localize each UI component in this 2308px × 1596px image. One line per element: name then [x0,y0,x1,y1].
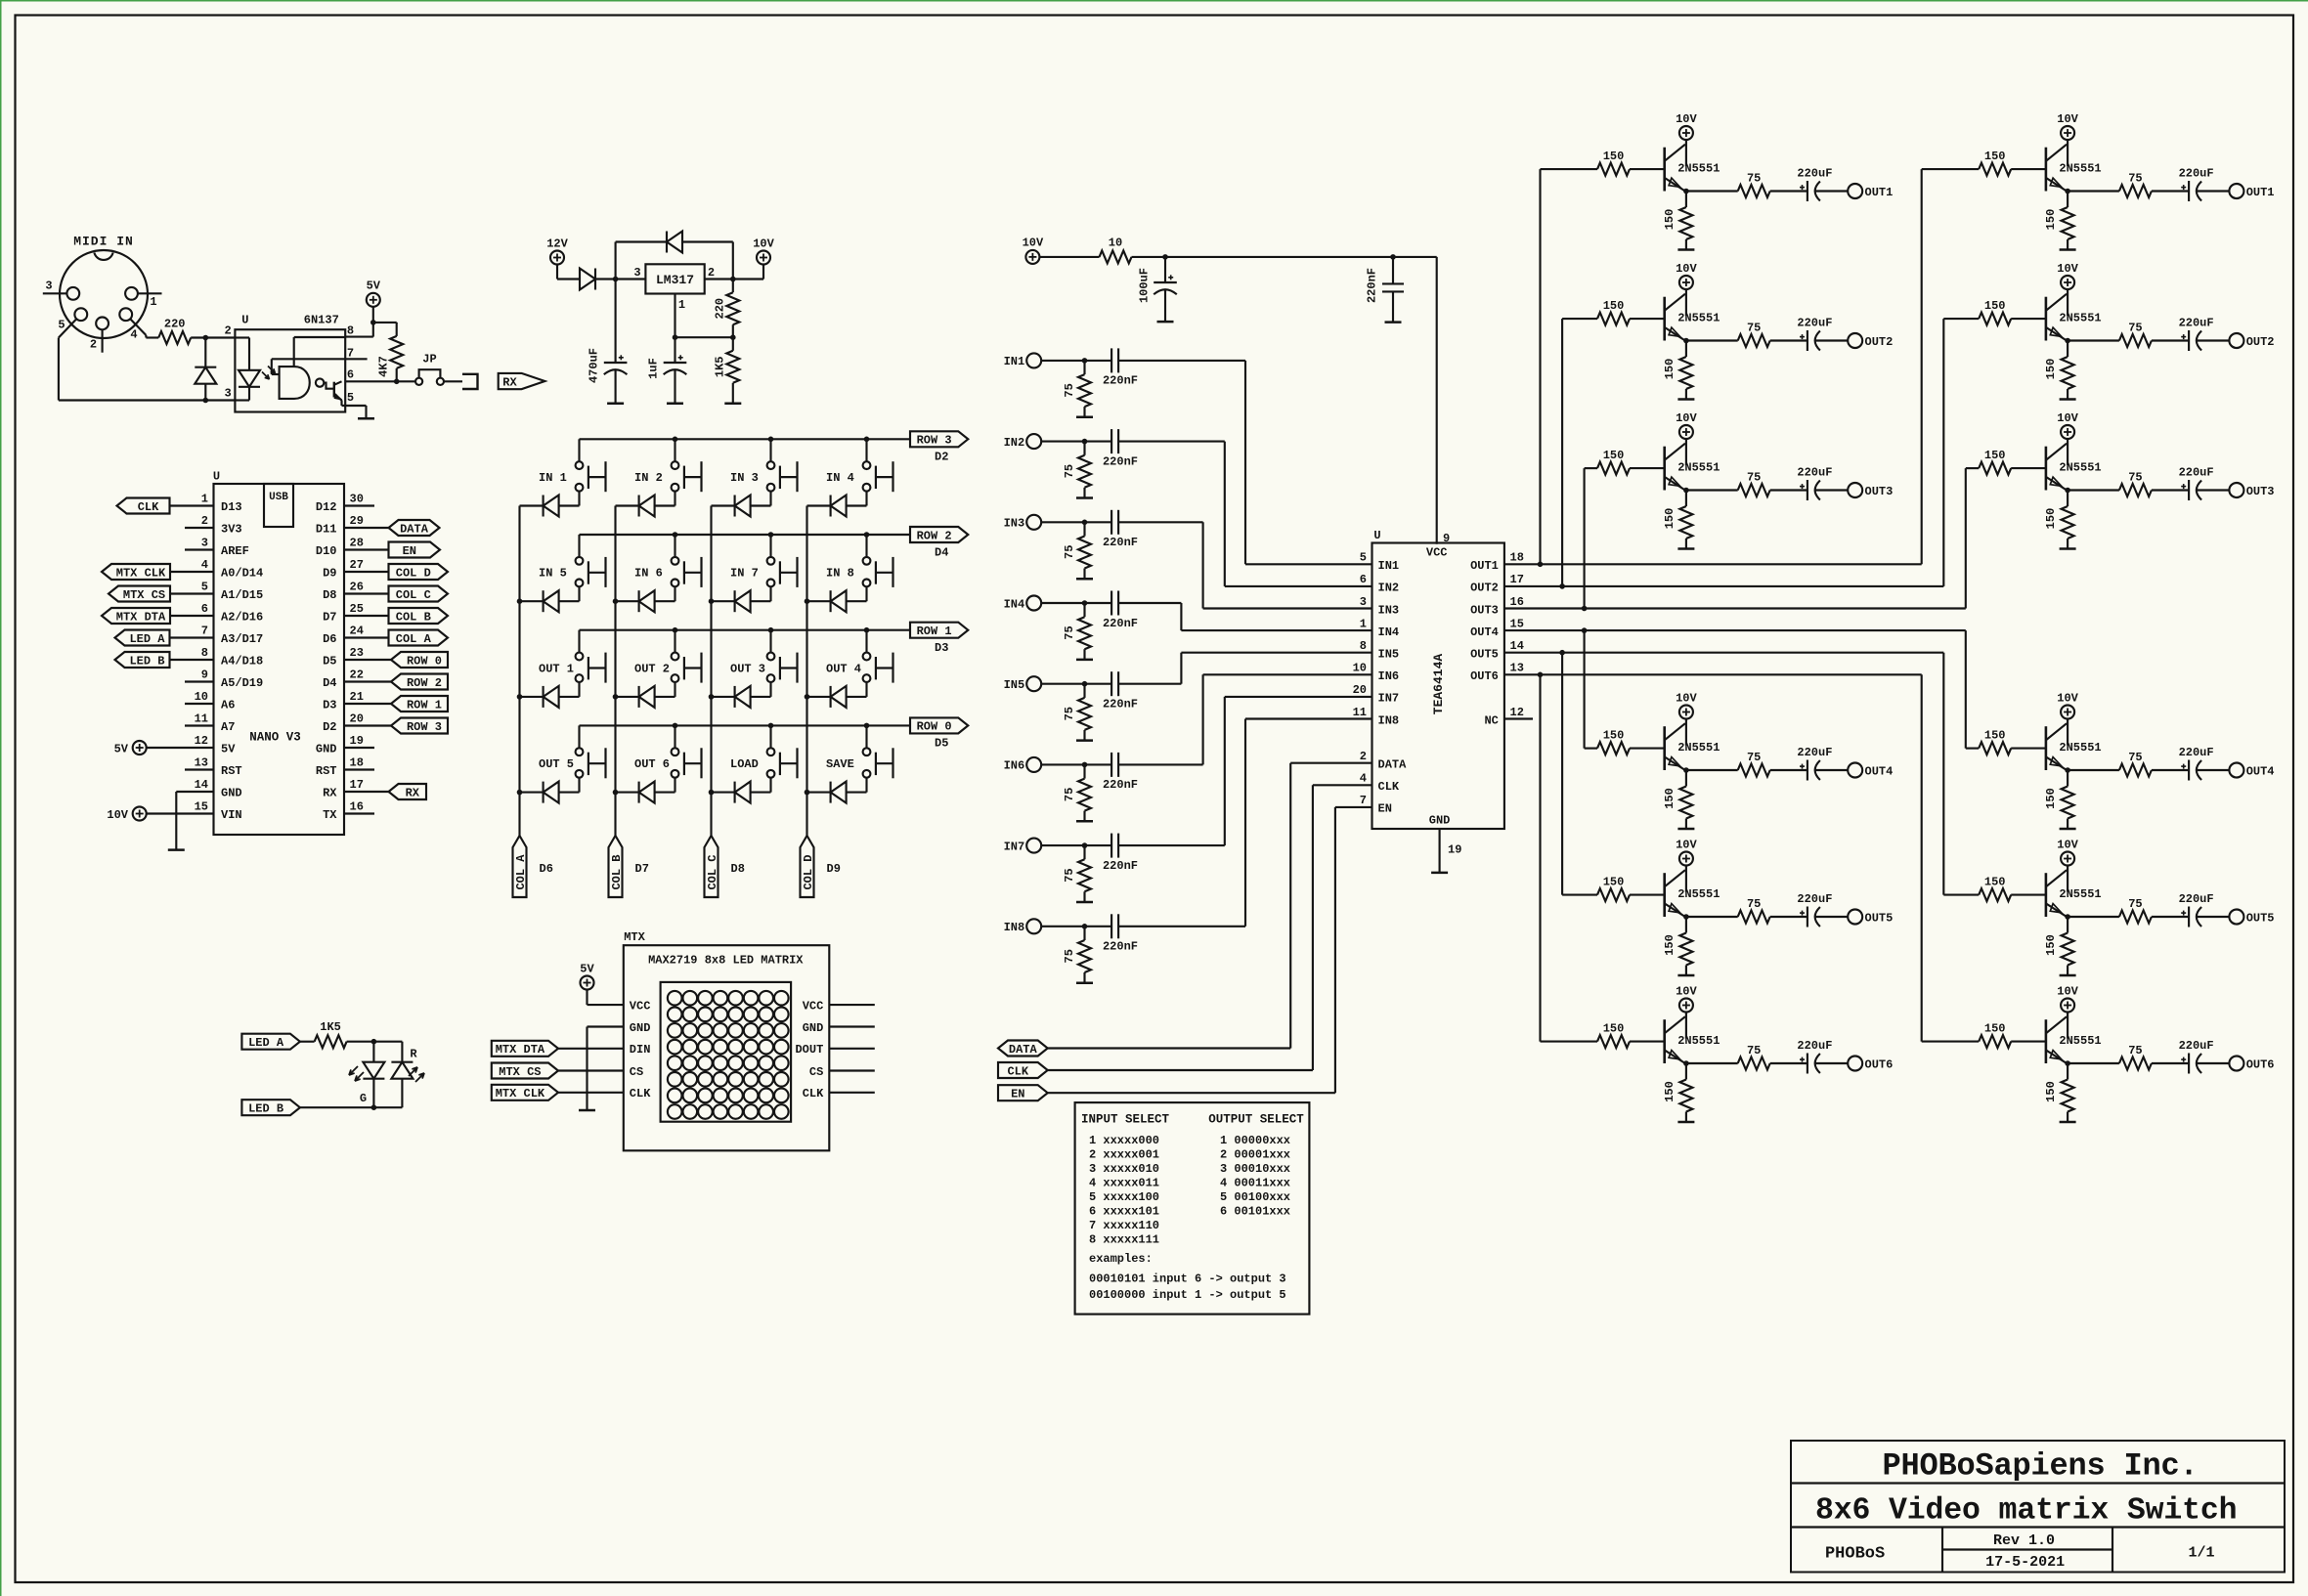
svg-text:DOUT: DOUT [795,1043,823,1057]
capacitor C4 220nF [1392,257,1394,284]
junction IN5 [1082,681,1088,687]
svg-text:75: 75 [1747,470,1761,484]
wire column COL B [614,506,616,837]
power flag 10V (QR1) [2061,126,2074,140]
terminal OUT1 (QL1) [1848,184,1862,198]
wire row ROW 0 [580,724,911,726]
junction IN7 [1082,842,1088,848]
opto output transistor [324,383,334,389]
page border green tint left edge [0,0,2,1596]
svg-text:75: 75 [1063,383,1076,397]
svg-text:IN 6: IN 6 [634,567,663,581]
terminal OUT3 (QR3) [2229,483,2243,497]
svg-text:D8: D8 [323,588,336,602]
svg-text:150: 150 [1663,1081,1677,1102]
junction row2 col2 [768,627,774,633]
svg-text:220uF: 220uF [2179,166,2214,180]
svg-text:220nF: 220nF [1103,859,1138,873]
svg-text:2: 2 [201,514,208,528]
resistor R QR4 series 75 [2119,764,2152,777]
svg-text:SAVE: SAVE [826,757,854,771]
wire OUT4 pin horizontal [1504,629,1966,631]
svg-text:5 00100xxx: 5 00100xxx [1220,1190,1290,1204]
svg-text:U: U [1373,529,1380,542]
capacitor C_in8 220nF [1110,914,1112,938]
svg-text:ROW 3: ROW 3 [917,434,952,448]
wire OUT4 right riser down [1965,630,1967,749]
junction row2 col3 [864,627,870,633]
resistor R5 1K5 [315,1035,347,1048]
svg-text:10V: 10V [753,237,774,250]
svg-text:TEA6414A: TEA6414A [1431,654,1446,715]
button SW IN 5 stub [578,535,580,557]
capacitor C QR5 220uF [2188,907,2190,927]
transistor Q QR3 2N5551 [2045,447,2048,491]
capacitor C QL4 220uF [1807,760,1808,781]
wire QR1 collector [2067,140,2068,166]
svg-text:D11: D11 [316,522,337,536]
junction IN3 [1082,520,1088,526]
junction QR5 emitter [2065,914,2070,920]
svg-text:2: 2 [1360,750,1367,763]
mcu pin14 GND wire [176,791,213,793]
wire QR1 R75 to cap [2152,190,2189,192]
svg-text:A1/D15: A1/D15 [221,588,263,602]
mcu U3 NANO V3 box [214,484,345,835]
MIDI pin 2 [96,318,109,330]
terminal OUT3 (QL3) [1848,483,1862,497]
svg-text:2: 2 [90,337,97,351]
wire QL3 emitter to R75 [1686,489,1738,491]
svg-text:TX: TX [323,808,337,822]
svg-text:PHOBoS: PHOBoS [1825,1544,1885,1563]
svg-text:2N5551: 2N5551 [2059,741,2101,755]
svg-text:10V: 10V [2057,112,2078,126]
wire OUT3 pin horizontal [1504,607,1966,609]
junction QL1 emitter [1683,189,1689,194]
svg-text:5V: 5V [580,962,594,975]
diode cell IN 5 [520,600,544,602]
junction row1 col1 [673,532,678,538]
transistor Q QL3 2N5551 [1663,447,1666,491]
svg-text:OUT 4: OUT 4 [826,662,861,675]
svg-text:220nF: 220nF [1103,454,1138,468]
junction OUT4 left riser [1582,627,1588,633]
junction col2 row2 [709,694,715,700]
svg-text:A4/D18: A4/D18 [221,654,263,668]
svg-text:OUT5: OUT5 [1470,648,1499,662]
flag COL A (pin24) [344,636,389,638]
svg-text:6 xxxxx101: 6 xxxxx101 [1089,1204,1159,1218]
wire QR2 collector [2067,289,2068,316]
svg-text:D12: D12 [316,500,337,514]
svg-text:10V: 10V [2057,984,2078,998]
svg-text:1 00000xxx: 1 00000xxx [1220,1134,1290,1147]
wire QL4 emitter to R75 [1686,769,1738,771]
resistor R QR3 emitter 150 [2067,491,2068,507]
svg-text:DATA: DATA [1378,758,1408,772]
svg-text:LOAD: LOAD [730,757,759,771]
svg-text:OUT1: OUT1 [1470,559,1499,573]
svg-text:220nF: 220nF [1103,698,1138,712]
diode cell IN 2 [616,504,639,506]
wire QR3 base [2011,467,2046,469]
svg-text:150: 150 [1663,934,1677,956]
svg-text:17-5-2021: 17-5-2021 [1985,1554,2065,1571]
svg-text:220uF: 220uF [1797,892,1832,906]
terminal OUT2 (QR2) [2229,333,2243,348]
svg-text:11: 11 [1353,706,1367,719]
svg-text:4 xxxxx011: 4 xxxxx011 [1089,1177,1159,1190]
wire OUT6 pin horizontal [1504,673,1922,675]
svg-text:2N5551: 2N5551 [1677,161,1720,175]
MIDI pin 5 [74,308,87,321]
power flag 12V [550,251,564,265]
wire LED A to R5 [300,1041,315,1043]
wire QR4 collector [2067,719,2068,746]
terminal OUT5 (QL5) [1848,910,1862,925]
resistor R_in7 75 [1083,845,1085,859]
svg-text:75: 75 [1063,625,1076,639]
svg-text:75: 75 [1747,321,1761,334]
svg-text:MTX CS: MTX CS [499,1065,541,1079]
svg-text:150: 150 [1603,449,1625,462]
wire OUT6 right riser down [1921,674,1923,1041]
svg-text:AREF: AREF [221,544,249,558]
svg-text:VCC: VCC [630,999,651,1013]
svg-text:4: 4 [130,327,137,341]
button SW IN 1 [576,461,584,469]
button SW OUT 3 [767,653,775,661]
mcu pin10 stub [185,703,214,705]
wire node C up to bypass rail [615,242,617,280]
ground R4 [724,403,741,406]
resistor R QR3 base 150 [1979,462,2011,475]
svg-text:6N137: 6N137 [304,314,339,327]
svg-text:D3: D3 [935,641,948,655]
junction QL5 emitter [1683,914,1689,920]
svg-text:USB: USB [269,492,288,503]
capacitor C_in5 220nF [1110,671,1112,696]
wire column COL A [518,506,520,837]
junction OUT5 left riser [1559,650,1565,656]
bypass diode rail right [682,240,733,242]
svg-text:MTX CLK: MTX CLK [496,1087,545,1100]
diode cell LOAD [712,792,735,794]
resistor R QR5 base 150 [1979,888,2011,901]
svg-text:150: 150 [1663,788,1677,809]
flag ROW 0 (matrix) [910,717,968,733]
svg-text:OUT6: OUT6 [1470,669,1499,683]
svg-text:220uF: 220uF [1797,316,1832,329]
button SW OUT 2 [672,653,679,661]
svg-text:20: 20 [350,712,364,725]
node B junction [203,398,209,404]
svg-text:10V: 10V [2057,411,2078,425]
power flag 10V (QL3) [1679,425,1693,439]
power flag 10V (QL4) [1679,706,1693,719]
MIDI pin 3 [66,287,79,300]
capacitor C_in1 220nF [1110,348,1112,372]
button SW IN 2 stub [674,439,675,461]
svg-text:220uF: 220uF [1797,746,1832,759]
svg-text:220: 220 [714,298,727,320]
svg-text:00010101 input 6 -> output 3: 00010101 input 6 -> output 3 [1089,1272,1286,1286]
flag LED A (pin7) [115,630,170,646]
wire QR3 cap to OUT [2197,489,2229,491]
resistor R2 4K7 [396,323,398,336]
mcu pin9 stub [185,680,214,682]
svg-text:7 xxxxx110: 7 xxxxx110 [1089,1219,1159,1232]
svg-text:OUT 5: OUT 5 [539,757,574,771]
svg-text:MTX CLK: MTX CLK [116,566,166,580]
wire QR1 base [2011,168,2046,170]
power flag 10V (reg out) [757,251,770,265]
svg-text:G: G [360,1092,367,1105]
svg-text:D3: D3 [323,698,336,712]
button SW SAVE stub [865,725,867,748]
svg-text:JP: JP [422,352,436,366]
svg-text:7: 7 [1360,794,1367,807]
diode cell SAVE [807,792,831,794]
svg-text:CLK: CLK [803,1087,824,1100]
flag ROW 1 (matrix) [910,623,968,638]
svg-text:220uF: 220uF [1797,465,1832,479]
svg-text:OUT5: OUT5 [1865,911,1894,925]
svg-text:LED B: LED B [129,654,164,668]
svg-text:220nF: 220nF [1103,778,1138,792]
svg-text:COL B: COL B [396,610,431,624]
svg-text:10V: 10V [1676,112,1697,126]
diode cell IN 4 [807,504,831,506]
wire QL4 collector [1685,719,1687,746]
diode cell IN 7 [712,600,735,602]
svg-text:150: 150 [1984,150,2006,163]
svg-text:150: 150 [2044,934,2058,956]
svg-text:examples:: examples: [1089,1252,1153,1266]
svg-text:LED A: LED A [248,1036,284,1050]
svg-text:75: 75 [1747,171,1761,185]
svg-text:Rev 1.0: Rev 1.0 [1993,1532,2055,1549]
svg-text:OUT 1: OUT 1 [539,662,574,675]
junction col0 row2 [517,694,523,700]
button SW IN 7 stub [769,535,771,557]
svg-text:GND: GND [221,786,242,799]
resistor R_in3 75 [1083,522,1085,536]
svg-text:4K7: 4K7 [377,356,391,377]
resistor R1 220 [158,331,191,344]
svg-text:10V: 10V [1676,262,1697,276]
svg-text:LM317: LM317 [656,273,694,287]
wire OUT1 right riser up [1921,169,1923,564]
svg-text:D7: D7 [635,862,649,876]
regulator U2 LM317 box [645,264,704,293]
wire 10V stub [762,265,764,280]
wire rail to TEA VCC [1436,257,1438,544]
power flag 5V (opto) [367,293,380,307]
svg-text:OUT3: OUT3 [2246,485,2275,498]
capacitor C QR6 220uF [2188,1054,2190,1074]
svg-text:150: 150 [1984,299,2006,313]
page border green tint top edge [0,0,2308,2]
svg-text:IN8: IN8 [1378,713,1400,727]
module right pin VCC stub [829,1004,875,1006]
power flag 10V (QR6) [2061,999,2074,1013]
svg-text:DATA: DATA [400,522,429,536]
node R2/pin6 junction [394,379,400,385]
wire QL1 base [1630,168,1665,170]
svg-text:75: 75 [2128,321,2142,334]
wire QR5 R75 to cap [2152,916,2189,918]
resistor R QL6 base 150 [1597,1035,1630,1048]
ground R_in3 [1076,578,1093,581]
diode cell IN 1 [520,504,544,506]
wire OUT4 left riser down [1584,630,1586,749]
svg-text:IN4: IN4 [1004,597,1025,611]
wire QL1 emitter to R75 [1686,190,1738,192]
title block row divider 1 [1791,1482,2285,1484]
wire OUT2 right riser up [1942,319,1944,586]
svg-text:29: 29 [350,514,364,528]
wire QR4 base [2011,748,2046,750]
junction QR1 emitter [2065,189,2070,194]
button SW IN 2 [672,461,679,469]
mcu pin3 stub [185,548,214,550]
terminal OUT6 (QL6) [1848,1057,1862,1071]
power flag 10V (rail) [1025,250,1039,264]
terminal OUT2 (QL2) [1848,333,1862,348]
svg-text:D4: D4 [935,545,948,559]
wire QL3 R75 to cap [1770,489,1807,491]
title block vertical divider right [2112,1528,2113,1573]
resistor R_in2 75 [1083,442,1085,455]
wire QR5 emitter to R75 [2068,916,2119,918]
resistor R QL1 emitter 150 [1685,192,1687,208]
svg-text:220nF: 220nF [1103,940,1138,954]
power flag 10V (QR5) [2061,852,2074,866]
LED R arrows [409,1067,417,1076]
wire QL4 base [1630,748,1665,750]
button SW OUT 5 stub [578,725,580,748]
resistor R6 10 [1100,250,1132,263]
svg-text:IN 5: IN 5 [539,567,567,581]
LED D12G green [372,1042,374,1062]
svg-text:RST: RST [221,764,242,778]
flag COL B (pin25) [344,615,389,617]
svg-text:1: 1 [150,295,156,309]
svg-text:10: 10 [195,690,208,704]
opto gate output bubble [316,378,324,386]
capacitor C QR1 220uF [2188,181,2190,201]
svg-text:10V: 10V [1023,237,1044,250]
diode D10 series [594,269,596,290]
svg-text:2N5551: 2N5551 [1677,460,1720,474]
transistor Q QL4 2N5551 [1663,726,1666,770]
svg-text:OUT1: OUT1 [2246,186,2275,199]
ground QL6 [1677,1121,1694,1124]
mcu pin11 stub [185,724,214,726]
wire OUT1 left riser up [1539,169,1541,564]
wire DATA to ic [1048,1047,1291,1049]
power flag 10V (QL1) [1679,126,1693,140]
resistor R QL1 series 75 [1738,185,1770,197]
svg-text:10V: 10V [2057,262,2078,276]
svg-text:11: 11 [195,712,208,725]
svg-text:D9: D9 [827,862,841,876]
svg-text:1/1: 1/1 [2188,1545,2214,1562]
wire QR1 cap to OUT [2197,190,2229,192]
ground R_in1 [1076,416,1093,419]
junction col3 row3 [805,790,810,796]
svg-text:IN6: IN6 [1378,669,1400,683]
wire QL6 emitter to R75 [1686,1062,1738,1064]
svg-text:RX: RX [406,786,420,799]
jumper JP [415,378,422,385]
transistor Q QR5 2N5551 [2045,873,2048,917]
junction col1 row3 [613,790,619,796]
svg-text:6: 6 [1360,573,1367,586]
button SW IN 3 stub [769,439,771,461]
MIDI pin 4 [119,308,132,321]
svg-text:ROW 1: ROW 1 [407,698,442,712]
svg-text:10V: 10V [2057,838,2078,851]
svg-text:2N5551: 2N5551 [1677,887,1720,901]
flag MTX CS (pin5) [109,586,170,602]
flag EN (bottom) [998,1085,1048,1100]
flag COL C (pin26) [344,592,389,594]
svg-text:CLK: CLK [138,500,159,514]
resistor R QR3 series 75 [2119,484,2152,496]
svg-text:2: 2 [224,324,231,338]
resistor R QL5 series 75 [1738,911,1770,924]
node C4 junction [1390,254,1396,260]
node LED top junction [371,1039,377,1045]
svg-text:220nF: 220nF [1366,268,1379,303]
resistor R_in8 75 [1083,927,1085,940]
resistor R QL2 series 75 [1738,334,1770,347]
node F junction [673,334,678,340]
svg-text:D6: D6 [323,632,336,646]
terminal IN1 [1026,353,1041,367]
svg-text:COL C: COL C [706,854,719,889]
wire OUT3 left riser up [1584,468,1586,608]
junction QL3 emitter [1683,488,1689,494]
flag MTX CLK (pin4) [102,564,170,580]
button SW SAVE [863,748,871,755]
transistor Q QL6 2N5551 [1663,1019,1666,1063]
power flag 10V (QL6) [1679,999,1693,1013]
junction OUT1 left riser [1538,562,1544,568]
junction OUT2 left riser [1559,583,1565,589]
svg-text:220uF: 220uF [1797,1039,1832,1053]
wire C_in7 to TEA pin [1118,844,1225,846]
wire OUT5 right riser down [1942,653,1944,895]
module MTX inner matrix box [661,982,792,1122]
ground C2 [667,403,683,406]
resistor R3 220 [732,280,734,293]
svg-text:470uF: 470uF [588,348,601,383]
svg-text:150: 150 [2044,508,2058,530]
svg-text:150: 150 [1663,359,1677,380]
wire MIDI pin5 down rail [58,338,60,401]
svg-text:10V: 10V [1676,411,1697,425]
button SW OUT 4 [863,653,871,661]
svg-text:220nF: 220nF [1103,536,1138,549]
flag LED B (pin8) [115,652,170,668]
svg-text:IN2: IN2 [1378,582,1400,595]
resistor R QL2 base 150 [1597,313,1630,325]
button SW OUT 3 stub [769,630,771,653]
